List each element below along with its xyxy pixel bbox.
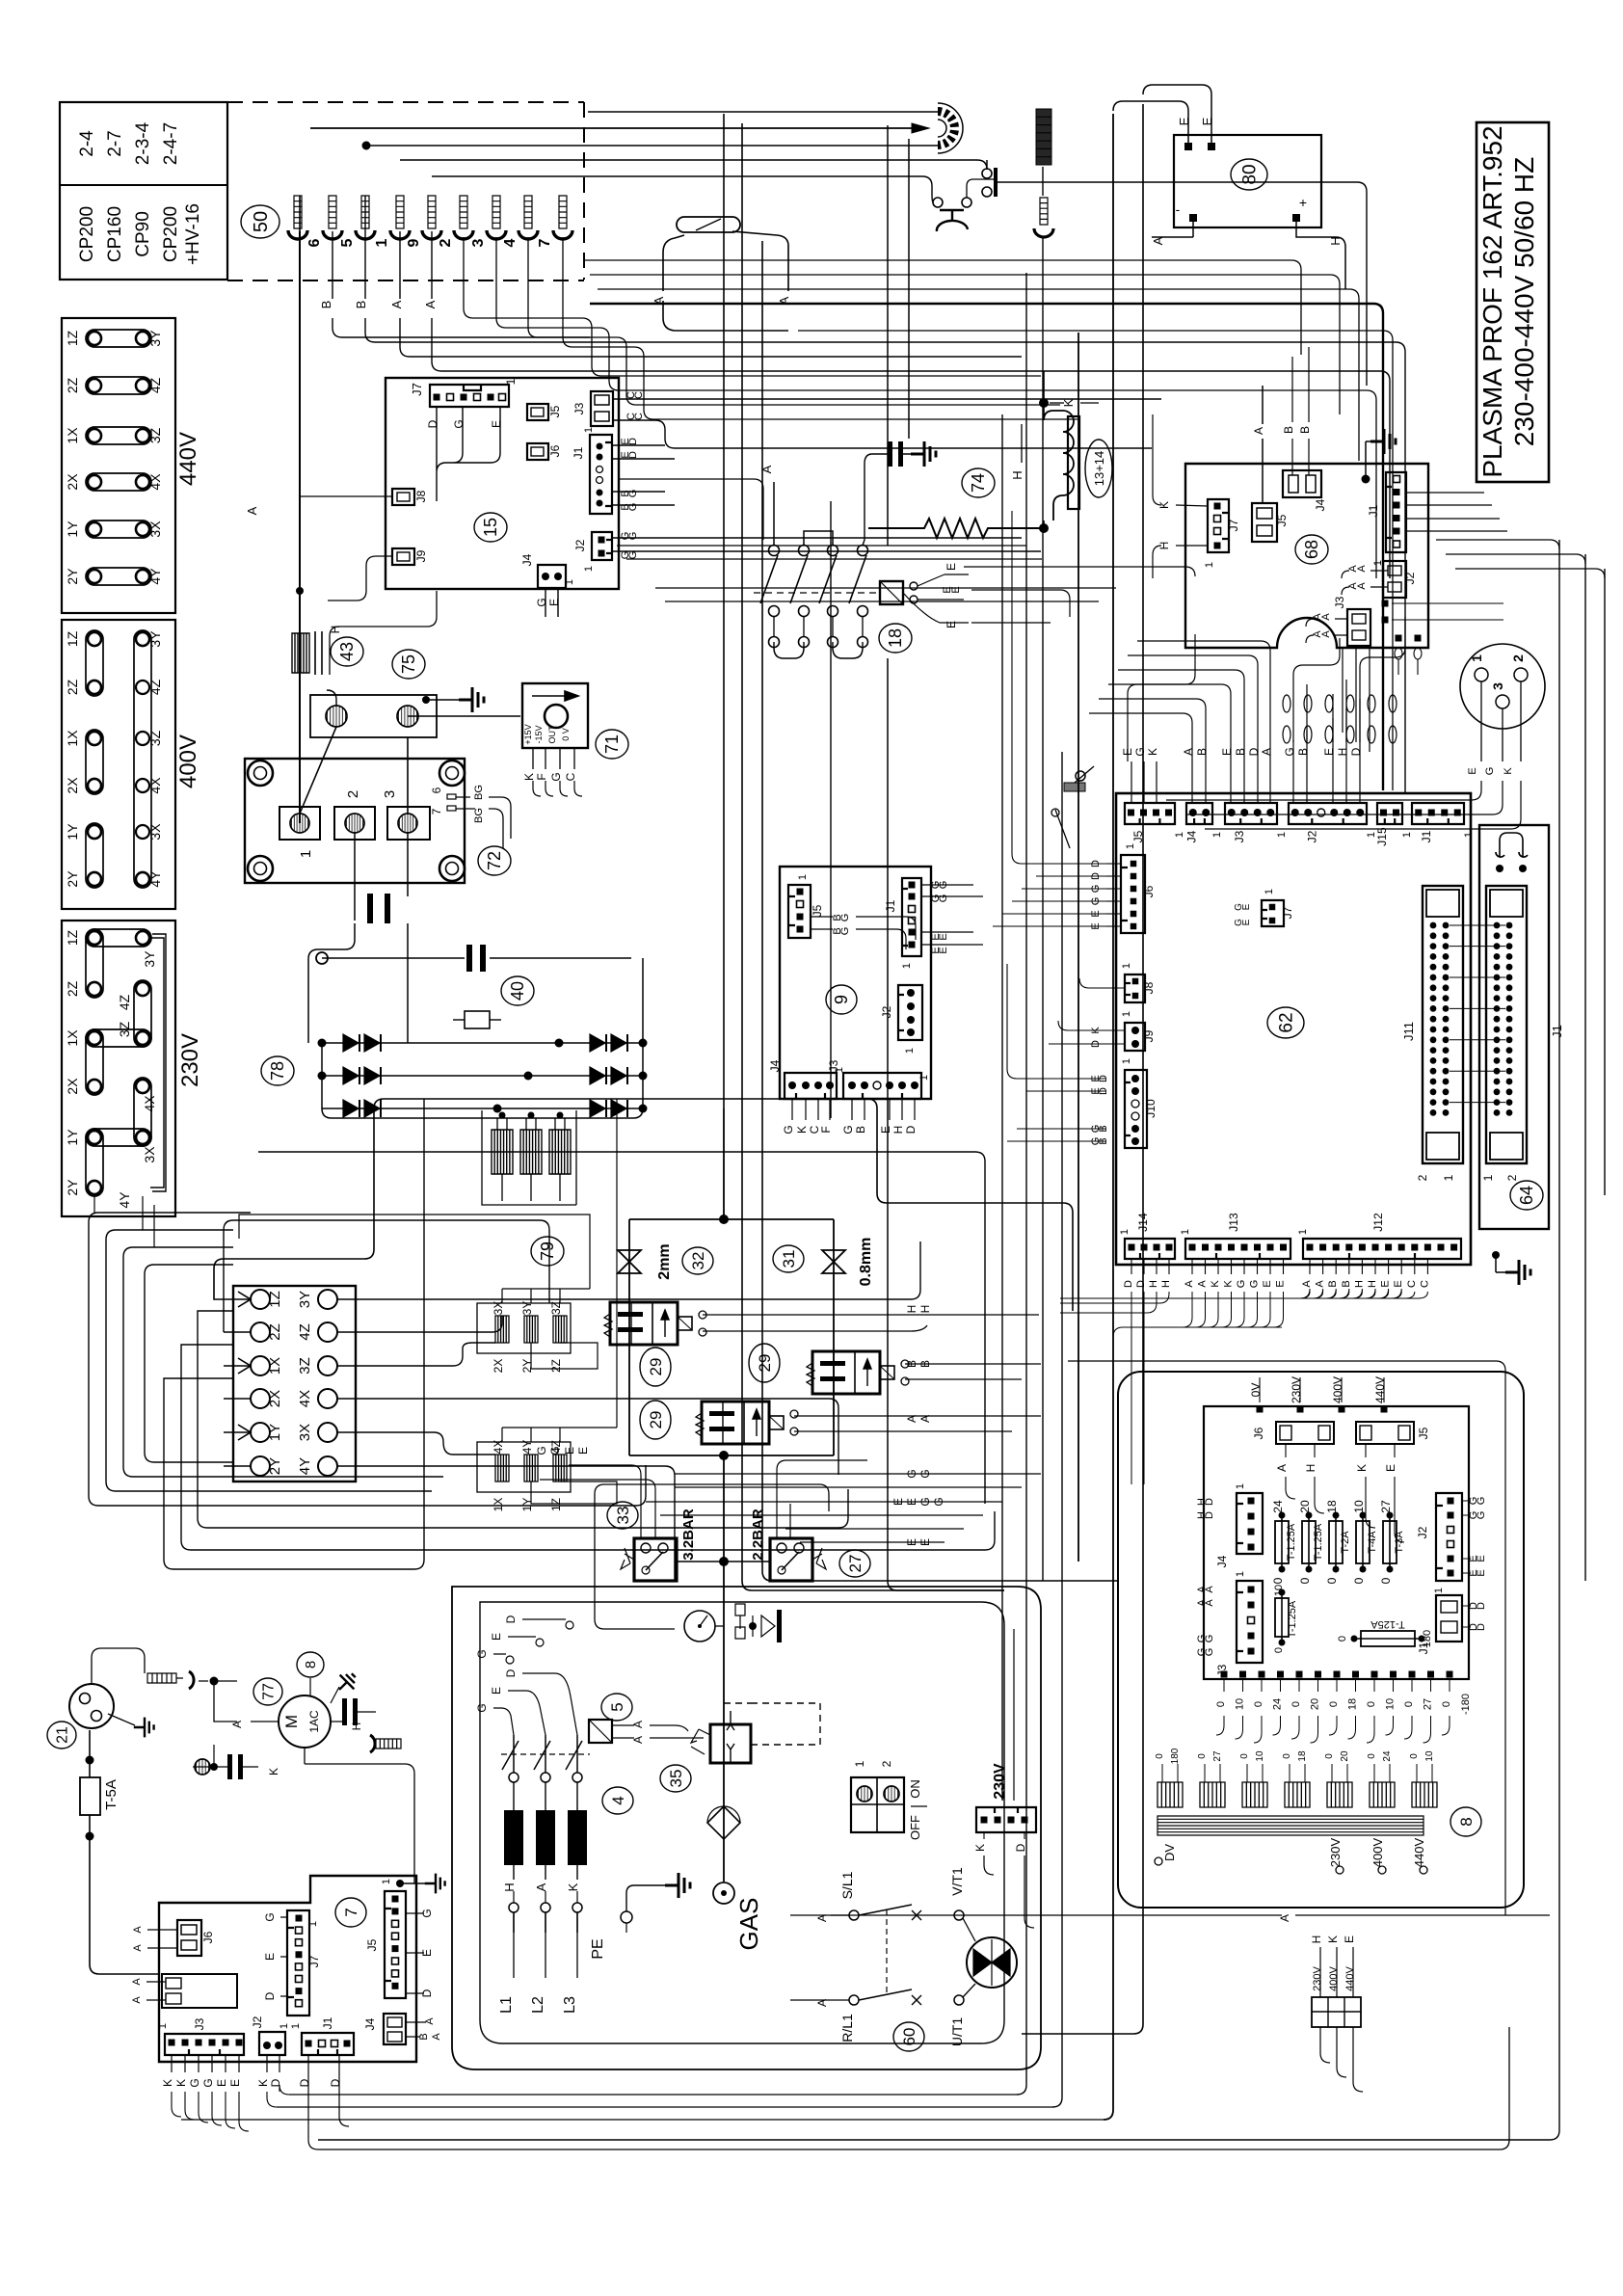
svg-text:A: A [1320, 630, 1332, 638]
svg-text:J10: J10 [1144, 1099, 1157, 1118]
svg-text:E: E [1476, 1569, 1487, 1576]
svg-text:27: 27 [846, 1555, 865, 1573]
connector J10 board62 [1125, 1070, 1147, 1148]
wire 3Y-4Y bracket [150, 934, 166, 1191]
svg-text:G: G [263, 1912, 277, 1921]
svg-text:D: D [1204, 1498, 1215, 1506]
svg-text:2Y: 2Y [65, 568, 80, 585]
svg-text:J4: J4 [363, 2017, 377, 2030]
svg-text:B: B [354, 301, 368, 309]
svg-text:G: G [1133, 747, 1147, 756]
choke 4Z-1Z [553, 1455, 567, 1482]
wire bottom runs [277, 2106, 1052, 2108]
svg-text:E: E [490, 1633, 503, 1641]
svg-text:F: F [819, 1126, 833, 1133]
svg-text:PE: PE [590, 1938, 606, 1959]
svg-text:G: G [938, 894, 949, 903]
svg-text:4Z: 4Z [117, 994, 132, 1010]
circle 15 [474, 513, 507, 542]
wires below J13 collector [1183, 1292, 1192, 1327]
relay 75 [310, 695, 437, 737]
svg-text:4X: 4X [142, 1095, 157, 1112]
circle 31 [773, 1245, 804, 1272]
svg-text:E: E [1380, 1280, 1392, 1287]
svg-text:9: 9 [832, 995, 851, 1004]
svg-text:5: 5 [608, 1702, 626, 1711]
node 3X [318, 1423, 337, 1442]
connector J2 board62 [1289, 803, 1367, 824]
connector J15 board62 [1377, 803, 1402, 824]
svg-text:1: 1 [298, 850, 314, 858]
solenoid valve 29 A [610, 1302, 678, 1345]
ground 64 [1492, 1251, 1500, 1259]
svg-text:-15V: -15V [534, 725, 544, 743]
svg-text:A: A [230, 1721, 244, 1728]
circle 74 [962, 468, 995, 497]
wire A long [831, 1914, 1282, 1916]
wire E E to top [1113, 85, 1211, 143]
svg-text:E: E [1384, 1464, 1397, 1472]
clamp left of motor [147, 1673, 176, 1683]
circle 60 [893, 2022, 924, 2051]
connector J4-7 [384, 2014, 406, 2044]
svg-text:A: A [1184, 1280, 1195, 1288]
circle 75 [392, 650, 425, 679]
circle 5 [601, 1694, 632, 1721]
svg-text:G: G [839, 927, 851, 936]
svg-text:3Z: 3Z [549, 1301, 563, 1315]
clamp 4 [524, 196, 532, 228]
svg-text:G: G [535, 1446, 548, 1455]
circle 29 A [640, 1348, 671, 1386]
svg-text:A: A [1260, 748, 1273, 756]
svg-text:C: C [633, 413, 645, 420]
svg-text:1: 1 [1235, 1483, 1246, 1489]
svg-text:0: 0 [1409, 1753, 1420, 1759]
svg-text:A: A [423, 300, 438, 308]
links 400V left [86, 630, 103, 696]
svg-text:G: G [932, 1497, 945, 1506]
svg-text:H: H [1367, 1280, 1378, 1288]
link matrix box [233, 1286, 356, 1482]
svg-text:J13: J13 [1227, 1213, 1240, 1232]
diode [364, 1100, 380, 1117]
svg-text:C: C [1419, 1280, 1430, 1288]
svg-text:8: 8 [1457, 1817, 1476, 1826]
svg-text:1: 1 [1442, 1174, 1455, 1181]
svg-text:E: E [1322, 748, 1336, 756]
svg-text:1: 1 [1433, 1588, 1445, 1593]
svg-text:C: C [564, 772, 577, 781]
clamp x [294, 196, 302, 228]
svg-text:0: 0 [1379, 1577, 1393, 1584]
svg-text:1X: 1X [65, 1029, 80, 1047]
svg-text:G: G [1283, 747, 1296, 756]
svg-text:1: 1 [504, 378, 518, 385]
svg-text:+15V: +15V [523, 724, 533, 744]
svg-text:V/T1: V/T1 [949, 1867, 965, 1896]
svg-text:PLASMA PROF 162 ART.952: PLASMA PROF 162 ART.952 [1477, 125, 1507, 477]
svg-text:E: E [1220, 748, 1234, 756]
svg-text:G: G [452, 419, 466, 428]
svg-text:0: 0 [1441, 1701, 1452, 1707]
svg-text:E: E [1262, 1280, 1273, 1287]
svg-text:CP160: CP160 [105, 206, 125, 262]
terminal block 400V [62, 620, 175, 909]
clamp 1 [396, 196, 404, 228]
connector J8 [392, 489, 414, 505]
connector J4-68 [1283, 470, 1321, 497]
svg-text:0: 0 [1197, 1753, 1208, 1759]
svg-text:K: K [522, 773, 536, 781]
svg-text:A: A [1301, 1280, 1313, 1288]
svg-text:10: 10 [1255, 1750, 1265, 1762]
crossing ovals [1283, 695, 1290, 712]
wires below J14 [1131, 1292, 1144, 1484]
connector J3 [591, 391, 613, 426]
svg-text:E: E [1275, 1280, 1287, 1287]
resistor 74 [868, 519, 1044, 538]
svg-text:E: E [945, 621, 958, 628]
svg-text:400V: 400V [175, 734, 201, 788]
svg-text:E: E [547, 599, 561, 606]
svg-text:29: 29 [756, 1354, 774, 1373]
svg-text:72: 72 [485, 851, 504, 870]
svg-text:J2: J2 [573, 539, 587, 551]
circle 29 C [749, 1344, 780, 1382]
svg-text:1: 1 [1235, 1571, 1246, 1577]
svg-text:E: E [576, 1447, 590, 1455]
wire coil E [903, 574, 969, 623]
circle 43 [331, 637, 363, 666]
svg-text:A: A [131, 1996, 143, 2004]
svg-text:A: A [1252, 427, 1265, 435]
svg-text:G: G [1204, 1635, 1215, 1643]
svg-text:1Y: 1Y [520, 1498, 534, 1512]
wires G B E H D up from J2-62 [1293, 617, 1405, 742]
svg-text:E: E [918, 1538, 932, 1546]
svg-text:D: D [426, 419, 439, 428]
svg-text:1: 1 [1481, 1174, 1495, 1181]
svg-text:1: 1 [1463, 832, 1475, 838]
svg-text:3: 3 [470, 238, 487, 247]
svg-text:1: 1 [1174, 832, 1185, 838]
svg-text:B: B [1282, 426, 1295, 434]
svg-text:H: H [1304, 1464, 1317, 1473]
circle 68 [1295, 535, 1328, 564]
svg-text:J3: J3 [1333, 596, 1346, 608]
svg-text:H: H [1336, 748, 1349, 757]
svg-text:A: A [131, 1978, 143, 1986]
svg-text:2X: 2X [267, 1390, 283, 1407]
left feeder bundle [89, 1222, 646, 1506]
svg-text:4Y: 4Y [520, 1440, 534, 1455]
wire clamp drops [464, 237, 1041, 376]
GAS outlet [713, 1882, 734, 1904]
junction K [1039, 398, 1049, 408]
node 4X [318, 1389, 337, 1408]
wire A / H [1152, 222, 1345, 289]
svg-text:1: 1 [381, 1879, 392, 1884]
svg-text:J2: J2 [251, 2016, 264, 2028]
svg-text:1: 1 [1121, 1058, 1132, 1064]
svg-text:A: A [1356, 565, 1368, 573]
svg-text:E: E [215, 2079, 228, 2087]
circle 8 [1450, 1807, 1481, 1836]
svg-text:K: K [566, 1882, 580, 1891]
winding [1412, 1782, 1437, 1807]
svg-text:1X: 1X [65, 730, 80, 747]
wire 230V block feeders [94, 1196, 154, 1247]
circle 4 [602, 1787, 633, 1814]
terminal 1 [279, 807, 320, 840]
svg-text:T-2A: T-2A [1340, 1531, 1351, 1554]
svg-text:230V: 230V [1290, 1376, 1303, 1403]
connector J5 [527, 404, 548, 420]
svg-text:J5: J5 [811, 904, 824, 917]
clamp 7 [559, 196, 567, 228]
svg-text:80: 80 [1239, 164, 1260, 184]
svg-text:27: 27 [1423, 1698, 1434, 1710]
connector J7-68 [1208, 499, 1229, 552]
svg-text:1: 1 [279, 2023, 290, 2029]
dashed link [886, 1909, 888, 1995]
svg-text:3Y: 3Y [147, 330, 163, 347]
svg-text:J2: J2 [880, 1005, 893, 1018]
svg-text:C: C [1406, 1280, 1418, 1288]
coil 18 [880, 581, 903, 604]
diode [590, 1067, 605, 1084]
svg-text:D: D [1014, 1843, 1027, 1852]
diode [343, 1100, 359, 1117]
wires board62 top entry [1089, 699, 1206, 761]
svg-text:0: 0 [1337, 1636, 1348, 1642]
svg-text:2-3-4: 2-3-4 [133, 121, 153, 165]
svg-text:G: G [549, 772, 563, 781]
wire torch contacts [366, 146, 987, 202]
svg-text:1AC: 1AC [307, 1710, 321, 1733]
gas main line [723, 1108, 725, 1219]
svg-text:0: 0 [1155, 1753, 1165, 1759]
wire center verticals [723, 114, 725, 1108]
title block [1477, 122, 1549, 482]
choke 3X-2X [495, 1316, 509, 1343]
node 4Z [318, 1322, 337, 1342]
board 15 [386, 378, 619, 589]
winding [1157, 1782, 1183, 1807]
svg-text:0 V: 0 V [561, 728, 571, 741]
svg-text:T-1.25A: T-1.25A [1286, 1523, 1297, 1561]
svg-text:1Z: 1Z [65, 630, 80, 647]
svg-text:1: 1 [1119, 1229, 1131, 1235]
svg-text:62: 62 [1276, 1012, 1296, 1032]
wires J1-68 right [1406, 493, 1507, 531]
svg-text:K: K [1503, 767, 1514, 775]
svg-text:G: G [839, 914, 851, 922]
matrix loop wires [214, 1099, 1073, 1311]
svg-text:U/T1: U/T1 [949, 2017, 965, 2047]
svg-text:J3: J3 [827, 1059, 840, 1072]
svg-text:1: 1 [1264, 889, 1275, 894]
svg-text:29: 29 [647, 1358, 665, 1376]
svg-text:DV: DV [1162, 1844, 1177, 1861]
connector J12 board62 [1303, 1239, 1461, 1259]
svg-text:1X: 1X [492, 1498, 505, 1512]
circle 64 [1510, 1181, 1543, 1210]
svg-text:0: 0 [1282, 1753, 1292, 1759]
svg-text:J1: J1 [1420, 830, 1433, 842]
diode [611, 1100, 626, 1117]
wire motor bottom [305, 1748, 414, 1883]
winding [1242, 1782, 1267, 1807]
solenoid valve 29 C [812, 1351, 880, 1394]
svg-text:D: D [1349, 747, 1363, 756]
svg-text:1: 1 [157, 2023, 169, 2029]
svg-text:74: 74 [969, 473, 988, 493]
svg-text:4Z: 4Z [297, 1323, 313, 1341]
svg-text:1: 1 [1211, 832, 1223, 838]
svg-text:1: 1 [1204, 562, 1215, 568]
svg-text:2Z: 2Z [65, 980, 80, 997]
diode [590, 1034, 605, 1052]
svg-text:0: 0 [1298, 1577, 1312, 1584]
svg-text:20: 20 [1310, 1698, 1321, 1710]
clamp under electrode [1040, 198, 1048, 225]
svg-text:-180: -180 [1460, 1694, 1472, 1715]
svg-text:4Y: 4Y [147, 568, 163, 585]
table CP200/CP160/CP90/CP200+HV-16 [60, 102, 227, 280]
svg-text:C: C [633, 391, 645, 399]
svg-text:J12: J12 [1371, 1213, 1385, 1232]
circle 1-3-2 plug [1460, 644, 1545, 729]
circle 29 B [640, 1401, 671, 1439]
block15 J8 J9 left wires [300, 496, 392, 601]
svg-text:2: 2 [345, 790, 361, 798]
svg-text:J1: J1 [1367, 504, 1380, 517]
svg-text:4Z: 4Z [549, 1440, 563, 1454]
circle 80 [1231, 159, 1267, 190]
svg-text:A: A [905, 1415, 918, 1423]
svg-text:0: 0 [1253, 1701, 1264, 1707]
winding [1200, 1782, 1225, 1807]
svg-text:K: K [267, 1768, 280, 1775]
svg-text:G: G [188, 2078, 201, 2087]
svg-text:0V: 0V [1249, 1383, 1263, 1398]
svg-text:A: A [1204, 1599, 1215, 1607]
svg-text:4: 4 [609, 1796, 627, 1804]
svg-text:G: G [1476, 1497, 1487, 1506]
svg-text:10: 10 [1385, 1698, 1397, 1710]
connector J7 [430, 385, 509, 407]
solenoid valve 29 B [702, 1402, 769, 1444]
connector J5-9 [788, 885, 811, 938]
connector J3-68 [1347, 609, 1370, 646]
svg-text:33: 33 [614, 1507, 632, 1525]
gas manifold loop [629, 1219, 834, 1455]
svg-text:2X: 2X [65, 777, 80, 794]
svg-text:3Y: 3Y [520, 1301, 534, 1316]
connector J6-7 [177, 1920, 201, 1956]
svg-text:0: 0 [1239, 1753, 1250, 1759]
svg-text:2Z: 2Z [65, 377, 80, 393]
svg-text:1: 1 [374, 238, 390, 247]
circle 33 [607, 1502, 638, 1529]
svg-text:D: D [1247, 747, 1261, 756]
clamp 3 [492, 196, 500, 228]
svg-text:1Y: 1Y [267, 1424, 283, 1441]
svg-text:2: 2 [880, 1760, 893, 1767]
svg-text:J7: J7 [410, 383, 424, 396]
svg-text:230V: 230V [992, 1763, 1008, 1800]
diode [343, 1067, 359, 1084]
wire AA [794, 1416, 1041, 1431]
svg-text:E: E [905, 1498, 918, 1506]
connector J9 [392, 548, 414, 565]
svg-text:2Z: 2Z [549, 1359, 563, 1373]
svg-text:K: K [1355, 1464, 1369, 1472]
connector J1 board62 [1412, 803, 1464, 824]
pressure switch 33 [634, 1538, 677, 1581]
svg-text:0: 0 [1271, 1577, 1285, 1584]
svg-text:43: 43 [337, 642, 357, 661]
svg-text:9: 9 [406, 238, 422, 247]
svg-text:A: A [389, 300, 404, 308]
svg-text:400V: 400V [1370, 1837, 1385, 1867]
svg-text:2: 2 [1510, 654, 1526, 662]
svg-text:G: G [627, 490, 639, 498]
terminal 2 [334, 807, 375, 840]
svg-text:0.8mm: 0.8mm [858, 1238, 874, 1287]
inductor 13+14 [1044, 411, 1074, 521]
svg-text:D: D [329, 2078, 342, 2087]
DIP connector J1 right [1479, 825, 1549, 1229]
circle 72 [478, 846, 511, 875]
svg-text:2Z: 2Z [267, 1323, 283, 1341]
svg-text:2Y: 2Y [65, 1179, 80, 1196]
wire EE [785, 1529, 964, 1542]
svg-text:1: 1 [1180, 1229, 1191, 1235]
connector J1 [590, 435, 612, 514]
wire BB [905, 1364, 1041, 1379]
circle 27 [839, 1550, 870, 1577]
diode [590, 1100, 605, 1117]
wire 75 to 72 [300, 727, 408, 814]
svg-text:J1: J1 [1550, 1025, 1564, 1038]
svg-text:A: A [424, 2017, 436, 2025]
inductor bar [525, 1118, 527, 1130]
circle 78 [261, 1056, 294, 1085]
terminal block 230V [62, 921, 175, 1216]
circle 9 [826, 985, 857, 1014]
connector J1-9 [902, 878, 921, 956]
svg-text:G: G [1204, 1648, 1215, 1657]
svg-text:8: 8 [303, 1661, 319, 1669]
svg-text:1: 1 [901, 963, 913, 969]
wire GG [675, 1474, 1041, 1487]
wire bridge row [322, 1108, 643, 1109]
circle 35 [660, 1765, 691, 1792]
connector J4 [538, 565, 566, 588]
breaker 4 poles [509, 1773, 519, 1782]
svg-text:T-1.25A: T-1.25A [1287, 1600, 1298, 1638]
connector J2-68 [1383, 561, 1406, 598]
board 68 [1185, 464, 1428, 648]
svg-text:3.2BAR: 3.2BAR [680, 1508, 697, 1561]
svg-text:0: 0 [1215, 1701, 1227, 1707]
svg-text:3X: 3X [297, 1424, 313, 1441]
DIP connector J11 [1423, 886, 1463, 1163]
svg-text:H: H [918, 1305, 932, 1314]
